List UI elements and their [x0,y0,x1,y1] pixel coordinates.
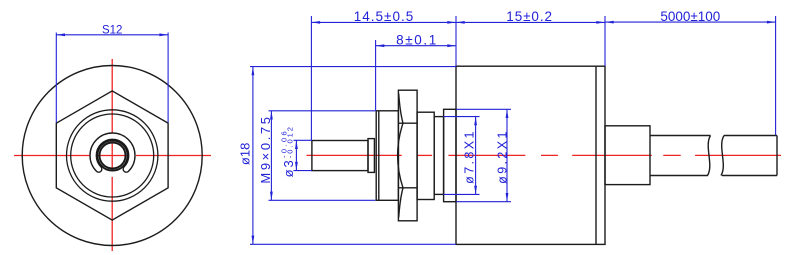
dimension M9x0.75 top arrowhead [270,111,273,120]
dimension 15±0.2 right extension line [604,16,606,66]
dimension Ø7.8x1 top arrowhead [474,117,477,126]
hex nut face chamfer arc [398,123,403,188]
dimension Ø3 bottom arrowhead [295,162,298,171]
dimension 5000±100 right extension line [775,16,777,135]
hex nut outline (side view) [398,90,417,221]
dimension Ø9.2x1 bottom extension line [456,201,511,203]
dimension M9x0.75 bottom arrowhead [270,192,273,201]
connector shell outer circle (front view) [67,110,158,201]
center pin hole inner circle (front view) [100,143,126,169]
dimension 8±0.1 left extension line [375,40,377,111]
dimension 15±0.2 right arrowhead [596,21,605,24]
centerline horizontal right segment (front view) [136,155,211,157]
hex nut corner line top [398,122,417,124]
dimension 5000±100 right arrowhead [767,21,776,24]
svg-text:ø9.2X1: ø9.2X1 [495,129,509,184]
threaded section M9x0.75 (side view) [376,111,398,201]
svg-text:-0.012: -0.012 [285,125,294,158]
dimension S12 right extension line [167,33,169,123]
dimension Ø9.2x1 bottom arrowhead [506,193,509,202]
centerline short dash 4 (side view) [541,154,558,156]
cable bottom line left part [650,175,708,177]
dimension 5000±100 dimension line [605,21,776,23]
hexagon S12 nut (front view) [56,91,168,220]
cable end line [776,136,778,176]
hex nut top chamfer curve [399,94,403,124]
center pin hole outer circle (front view) [97,140,127,170]
svg-text:M9×0.75: M9×0.75 [258,114,273,183]
dimension 15±0.2 left extension line [455,16,457,66]
center pin Ø3 (side view) [312,141,368,171]
pin collar (side view) [368,139,374,173]
dimension Ø3 bottom extension line [294,170,312,172]
cable gland (side view) [605,126,650,185]
dimension 14.5±0.5 left arrowhead [311,21,320,24]
centerline short dash 6 (side view) [663,154,680,156]
dimension Ø18 dimension line [252,67,254,245]
dimension Ø18 top arrowhead [252,67,255,76]
svg-text:5000±100: 5000±100 [660,9,720,24]
dimension 15±0.2 dimension line [456,21,605,23]
dimension Ø3 top arrowhead [295,140,298,149]
outer circle of Ø18 body (front view) [22,66,202,246]
centerline segment 2 (side view) [417,154,432,156]
dimension 14.5±0.5 right arrowhead [447,21,456,24]
centerline horizontal left segment (front view) [14,155,90,157]
dimension Ø7.8x1 top extension line [443,116,479,118]
connector shell inner circle (front view) [71,114,154,197]
svg-text:S12: S12 [102,25,122,37]
dimension M9x0.75 top extension line [269,110,376,112]
dimension 8±0.1 dimension line [376,45,456,47]
centerline segment 1 (side view) [307,154,402,156]
dimension S12 left arrowhead [56,33,65,36]
washer (side view) [417,112,434,199]
dimension Ø3 top extension line [294,139,312,141]
dimension S12 dimension line [56,34,168,36]
dimension 8±0.1 left arrowhead [376,44,385,47]
thread chamfer line [378,111,380,201]
dimension Ø7.8x1 bottom extension line [443,193,479,195]
dimension 8±0.1 right arrowhead [447,44,456,47]
dimension Ø18 bottom extension line [250,243,456,245]
horseshoe keyway insert (front view) [90,133,135,172]
centerline horizontal middle dash (front view) [96,155,127,157]
hex nut bottom chamfer curve [399,188,403,218]
dimension Ø7.8x1 dimension line [475,117,477,195]
svg-text:ø3: ø3 [281,158,296,177]
centerline vertical top segment (front view) [111,59,113,137]
dimension M9x0.75 dimension line [270,111,272,201]
svg-text:15±0.2: 15±0.2 [506,9,553,24]
disc Ø9.2x1 (side view) [444,109,456,201]
dimension 15±0.2 left arrowhead [456,21,465,24]
cable bottom line right part [722,175,777,177]
dimension S12 right arrowhead [159,33,168,36]
dimension Ø9.2x1 top arrowhead [506,109,509,118]
dimension Ø9.2x1 dimension line [506,109,508,201]
disc Ø7.8x1 (side view) [434,117,443,195]
cable top line right part [724,135,777,137]
centerline vertical bottom segment (front view) [111,177,113,251]
dimension Ø9.2x1 top extension line [456,108,511,110]
svg-text:8±0.1: 8±0.1 [396,33,438,48]
svg-text:ø18: ø18 [237,143,252,165]
dimension Ø7.8x1 bottom arrowhead [474,186,477,195]
dimension Ø3 dimension line [295,140,297,170]
dimension Ø18 top extension line [250,66,456,68]
centerline segment 5 (side view) [572,154,652,156]
dimension 14.5±0.5 dimension line [311,21,456,23]
main housing body Ø18 (side view) [456,66,605,244]
dimension Ø18 bottom arrowhead [252,236,255,245]
housing end cap line [595,66,597,244]
dimension 14.5±0.5 left extension line [310,16,312,140]
cable top line left part [650,135,711,137]
dimension M9x0.75 bottom extension line [269,199,376,201]
centerline vertical middle dash (front view) [111,142,113,170]
centerline segment 7 (side view) [695,154,781,156]
svg-text:ø7.8X1: ø7.8X1 [462,129,476,184]
dimension S12 left extension line [55,33,57,123]
cable break line 2 [721,136,724,176]
dimension 5000±100 left arrowhead [605,21,614,24]
centerline segment 3 (side view) [448,154,525,156]
svg-text:14.5±0.5: 14.5±0.5 [354,9,414,24]
hex nut corner line bottom [398,187,417,189]
cable break line 1 [708,136,711,176]
